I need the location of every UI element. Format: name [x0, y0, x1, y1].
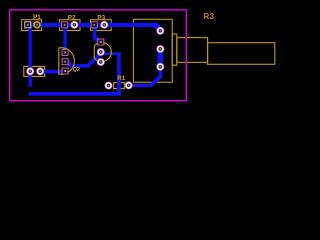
- pad Q2-1 square: [98, 39, 104, 45]
- pad C1-2 round: [37, 68, 44, 75]
- board outline: [10, 10, 187, 101]
- wire P1 left pad down to C1 left pad: [29, 25, 32, 87]
- wire vertical through R1 body up to Q2 net corner: [117, 52, 121, 94]
- pad Q2-3 round: [97, 58, 104, 65]
- wire P2 left pad down to Q1 pad1: [64, 25, 67, 53]
- wire bottom bus C1 to under R1: [29, 92, 121, 96]
- wire R1 right pad to R3 pad3: [129, 67, 162, 87]
- wire horizontal Q2 middle pad to corner: [101, 50, 121, 55]
- label Q2: [73, 67, 80, 73]
- pad Q1-2 square: [62, 59, 68, 65]
- pad P3-1 square: [91, 22, 97, 28]
- pad P2-1 square: [62, 22, 68, 28]
- connector P3 outline: [91, 20, 112, 31]
- potentiometer R3 shaft: [208, 43, 275, 65]
- potentiometer R3 body outline: [133, 19, 172, 82]
- wire Q1 pad2 to Q2 pad2 with jogs: [65, 52, 102, 68]
- resistor R1 body outline: [114, 83, 125, 89]
- svg-text:R3: R3: [204, 12, 215, 21]
- wire P3 left pad down and jog to Q2 pad1: [93, 25, 102, 45]
- svg-text:R1: R1: [117, 75, 125, 82]
- wire R3 pad2 to pad3: [157, 49, 163, 67]
- pad P1-1 square: [25, 22, 31, 28]
- pad C1-1 round: [27, 68, 34, 75]
- pad P3-2 round: [101, 21, 108, 28]
- svg-text:P3: P3: [97, 14, 105, 21]
- label P2: [68, 14, 76, 21]
- pad R3-1 round: [157, 27, 164, 34]
- svg-text:P2: P2: [68, 14, 76, 21]
- pad R3-2 round: [157, 45, 164, 52]
- pad R1-2 round: [125, 82, 132, 89]
- wire top bus P1-P2-P3 to R3 pad1: [26, 23, 162, 31]
- potentiometer R3 flange: [172, 34, 177, 65]
- connector P1 outline: [22, 20, 42, 31]
- transistor Q2 silkscreen D-shape: [94, 42, 111, 61]
- pad Q2-2 round: [97, 48, 104, 55]
- pad Q1-1 square: [62, 49, 68, 55]
- transistor Q1 silkscreen D-shape: [59, 48, 75, 75]
- label P3: [97, 14, 105, 21]
- capacitor C1 body outline: [24, 66, 45, 76]
- label P1: [33, 14, 41, 21]
- svg-text:P1: P1: [33, 14, 41, 21]
- label R3: [204, 12, 215, 21]
- pad R1-1 round: [105, 82, 112, 89]
- pad Q1-3 square: [62, 68, 68, 74]
- pad R3-3 round: [157, 63, 164, 70]
- potentiometer R3 bushing: [177, 38, 208, 63]
- wire C1 right pad to Q1 pad3: [40, 70, 65, 74]
- pad P1-2 round gold: [34, 22, 40, 28]
- connector P2 outline: [59, 20, 80, 31]
- svg-text:Q2: Q2: [73, 67, 80, 73]
- pad P2-2 round: [71, 21, 78, 28]
- label R1: [117, 75, 125, 82]
